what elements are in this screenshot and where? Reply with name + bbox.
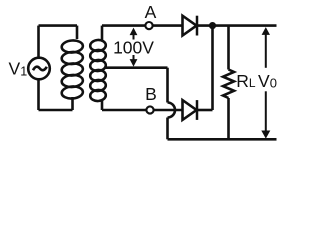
wire hop over B wire — [168, 103, 176, 118]
svg-text:RL: RL — [236, 71, 256, 91]
wire center tap vertical lower — [166, 118, 169, 140]
svg-text:A: A — [145, 2, 157, 22]
transformer secondary winding L2 — [90, 26, 106, 110]
wire A to D1 — [153, 24, 183, 27]
wire bottom rail — [168, 138, 277, 141]
svg-text:V1: V1 — [9, 59, 28, 79]
wire secondary top to A — [102, 24, 145, 27]
wire RL top lead — [227, 26, 230, 70]
wire center tap horizontal — [106, 66, 168, 69]
junction dot — [209, 22, 216, 29]
wire vertical junction to D2 cathode — [211, 26, 214, 110]
node A terminal — [145, 22, 152, 29]
white mask under V0 label — [257, 68, 282, 92]
arrow 100V up — [130, 28, 138, 40]
wire D2 cathode to corner — [197, 109, 213, 112]
arrow 100V down — [130, 55, 138, 67]
wire primary bottom — [39, 109, 73, 112]
wire center tap vertical upper — [166, 68, 169, 103]
wire primary left upper — [37, 26, 40, 58]
node B terminal — [146, 106, 153, 113]
svg-text:100V: 100V — [113, 38, 154, 58]
diode D1 — [183, 16, 198, 36]
resistor RL — [223, 70, 234, 99]
diode D2 — [183, 100, 198, 120]
wire D1 cathode to top-right end — [197, 24, 277, 27]
transformer primary winding L1 — [61, 26, 83, 110]
arrow V0 double-headed — [261, 27, 270, 139]
wire primary top — [39, 24, 78, 27]
wire secondary bottom to B — [102, 109, 146, 112]
wire primary left lower — [37, 79, 40, 110]
wire RL bottom lead — [227, 98, 230, 139]
svg-text:B: B — [145, 84, 157, 104]
wire B to D2 anode — [154, 109, 183, 112]
source V1 — [28, 58, 50, 80]
